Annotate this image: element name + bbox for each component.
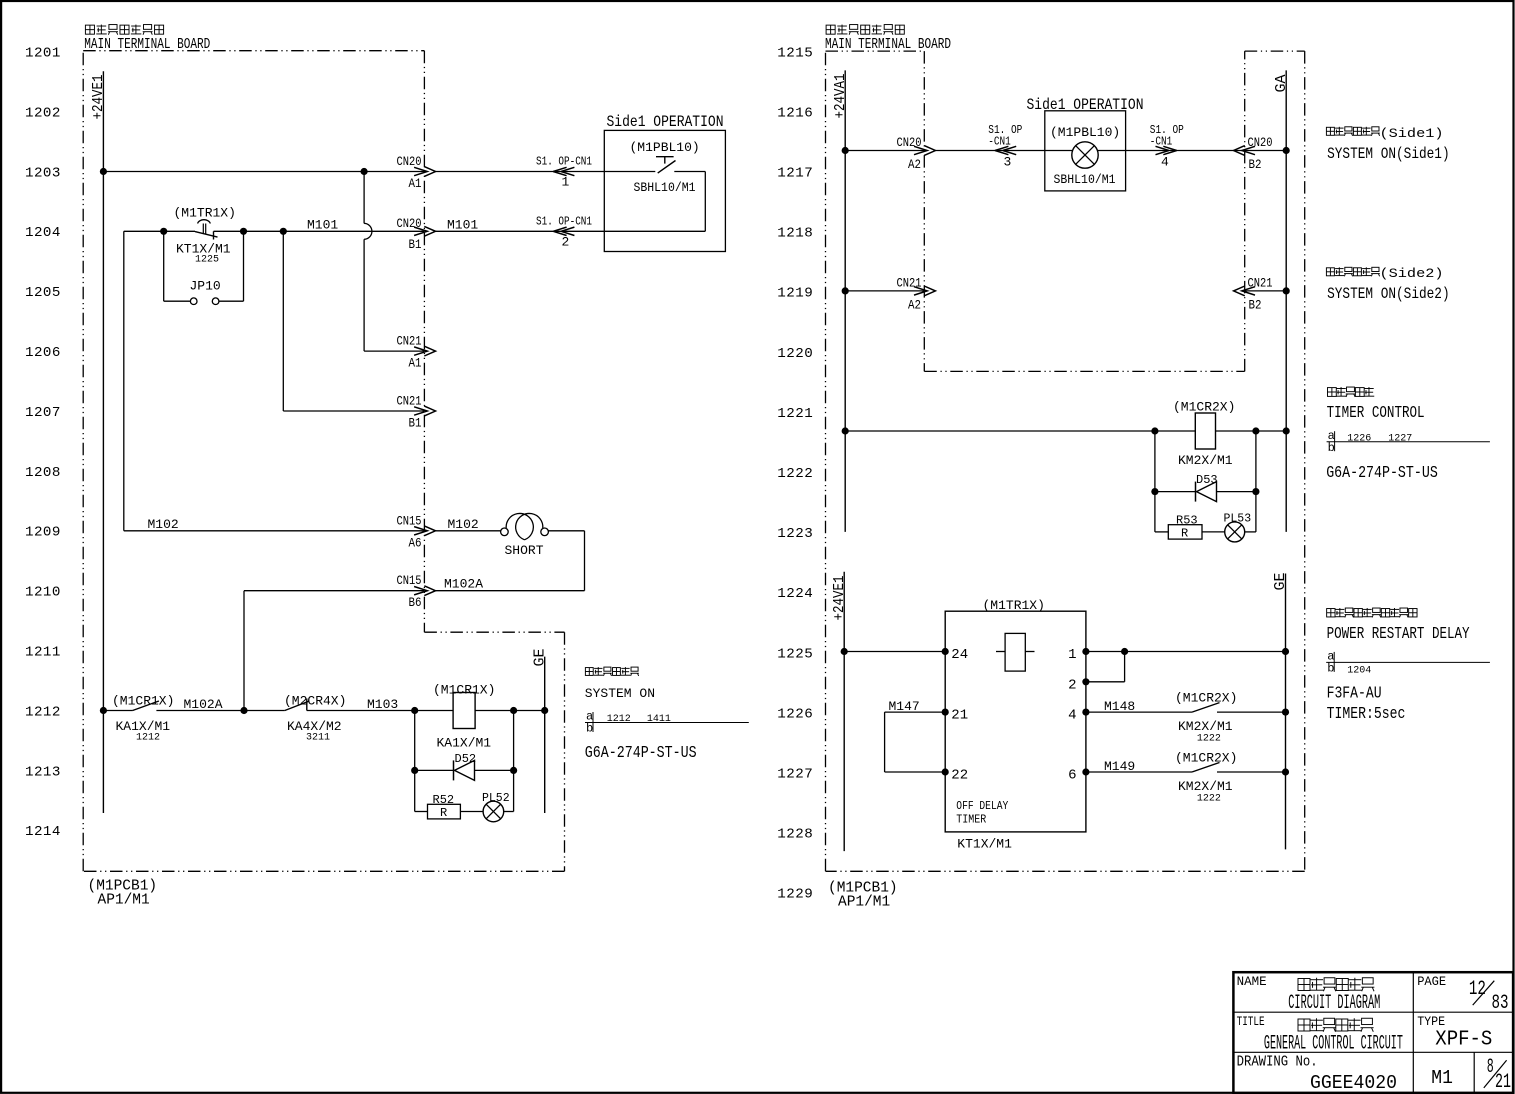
svg-text:1219: 1219 <box>777 286 813 302</box>
svg-text:B1: B1 <box>409 417 422 431</box>
svg-text:D52: D52 <box>455 752 477 766</box>
svg-text:KM2X/M1: KM2X/M1 <box>1178 779 1233 794</box>
svg-text:1222: 1222 <box>1197 733 1221 744</box>
svg-text:CIRCUIT DIAGRAM: CIRCUIT DIAGRAM <box>1288 992 1380 1015</box>
svg-text:TITLE: TITLE <box>1237 1014 1265 1029</box>
svg-text:b: b <box>586 722 593 736</box>
svg-text:1222: 1222 <box>1197 793 1221 804</box>
svg-text:1213: 1213 <box>25 764 61 780</box>
svg-text:22: 22 <box>951 768 968 784</box>
svg-text:A6: A6 <box>409 536 422 550</box>
svg-text:PL52: PL52 <box>482 792 510 805</box>
svg-text:CN15: CN15 <box>397 514 422 528</box>
svg-text:B2: B2 <box>1249 298 1262 312</box>
svg-text:R: R <box>1181 527 1188 541</box>
svg-text:SYSTEM ON(Side1): SYSTEM ON(Side1) <box>1327 145 1450 163</box>
svg-text:3: 3 <box>1004 155 1012 170</box>
svg-text:(M1TR1X): (M1TR1X) <box>174 206 236 221</box>
svg-text:1229: 1229 <box>777 887 813 903</box>
svg-text:AP1/M1: AP1/M1 <box>838 895 890 911</box>
svg-text:1227: 1227 <box>1388 433 1412 444</box>
svg-text:M103: M103 <box>367 697 398 712</box>
svg-text:A1: A1 <box>409 177 422 191</box>
svg-text:AP1/M1: AP1/M1 <box>98 893 150 909</box>
svg-text:R52: R52 <box>433 793 455 807</box>
svg-text:1212: 1212 <box>607 714 631 725</box>
svg-text:M102A: M102A <box>184 697 223 712</box>
svg-text:1225: 1225 <box>777 646 813 662</box>
svg-text:CN20: CN20 <box>397 217 422 231</box>
svg-text:(M1CR2X): (M1CR2X) <box>1175 751 1237 766</box>
svg-text:-CN1: -CN1 <box>988 135 1011 149</box>
svg-text:JP10: JP10 <box>190 279 221 294</box>
svg-text:-CN1: -CN1 <box>1150 135 1173 149</box>
svg-text:(M1CR1X): (M1CR1X) <box>112 694 174 709</box>
svg-text:(M1CR2X): (M1CR2X) <box>1175 691 1237 706</box>
svg-text:B2: B2 <box>1249 158 1262 172</box>
svg-text:1216: 1216 <box>777 105 813 121</box>
svg-text:1207: 1207 <box>25 405 61 421</box>
svg-text:DRAWING No.: DRAWING No. <box>1237 1054 1318 1070</box>
svg-text:GE: GE <box>532 648 549 666</box>
svg-text:2: 2 <box>1068 677 1076 693</box>
svg-text:CN20: CN20 <box>397 155 422 169</box>
svg-text:24: 24 <box>951 647 968 663</box>
svg-text:21: 21 <box>1495 1071 1511 1094</box>
svg-text:SYSTEM ON: SYSTEM ON <box>585 686 655 701</box>
svg-text:1221: 1221 <box>777 406 813 422</box>
svg-text:R: R <box>440 806 447 820</box>
svg-text:1224: 1224 <box>777 586 813 602</box>
svg-text:2: 2 <box>562 235 570 250</box>
svg-text:SYSTEM ON(Side2): SYSTEM ON(Side2) <box>1327 285 1450 303</box>
svg-text:1217: 1217 <box>777 166 813 182</box>
svg-text:1210: 1210 <box>25 585 61 601</box>
svg-text:1223: 1223 <box>777 526 813 542</box>
svg-text:(M1PBL10): (M1PBL10) <box>1050 125 1120 140</box>
svg-text:1201: 1201 <box>25 46 61 62</box>
svg-text:TIMER: TIMER <box>956 813 986 827</box>
svg-text:1212: 1212 <box>136 733 160 744</box>
svg-text:1212: 1212 <box>25 704 61 720</box>
svg-text:M147: M147 <box>889 699 920 714</box>
svg-text:M148: M148 <box>1104 699 1135 714</box>
svg-text:GGEE4020: GGEE4020 <box>1310 1072 1397 1094</box>
svg-text:G6A-274P-ST-US: G6A-274P-ST-US <box>585 744 697 763</box>
svg-text:b: b <box>1328 441 1335 455</box>
svg-text:A1: A1 <box>409 357 422 371</box>
svg-text:1222: 1222 <box>777 466 813 482</box>
svg-text:POWER RESTART DELAY: POWER RESTART DELAY <box>1327 625 1470 644</box>
svg-text:4: 4 <box>1068 708 1076 724</box>
svg-text:SBHL10/M1: SBHL10/M1 <box>634 180 696 195</box>
svg-text:PAGE: PAGE <box>1417 974 1446 989</box>
svg-text:(M2CR4X): (M2CR4X) <box>284 694 346 709</box>
svg-text:M101: M101 <box>307 218 338 233</box>
svg-text:1202: 1202 <box>25 105 61 121</box>
svg-text:1214: 1214 <box>25 824 61 840</box>
svg-text:CN21: CN21 <box>397 395 422 409</box>
svg-text:CN20: CN20 <box>1248 136 1273 150</box>
svg-text:S1. OP-CN1: S1. OP-CN1 <box>536 155 592 169</box>
svg-text:KM2X/M1: KM2X/M1 <box>1178 453 1233 468</box>
svg-text:+24VE1: +24VE1 <box>90 75 107 120</box>
svg-text:1228: 1228 <box>777 827 813 843</box>
svg-text:1218: 1218 <box>777 226 813 242</box>
svg-text:A2: A2 <box>908 298 921 312</box>
svg-text:1215: 1215 <box>777 45 813 61</box>
svg-text:KA1X/M1: KA1X/M1 <box>437 736 492 751</box>
svg-text:(M1CR2X): (M1CR2X) <box>1173 400 1235 415</box>
svg-text:1: 1 <box>1068 647 1076 663</box>
svg-text:b: b <box>1327 662 1334 676</box>
svg-text:(Side2): (Side2) <box>1380 267 1444 281</box>
svg-text:KM2X/M1: KM2X/M1 <box>1178 719 1233 734</box>
svg-text:1411: 1411 <box>647 714 671 725</box>
svg-text:(M1CR1X): (M1CR1X) <box>433 683 495 698</box>
svg-text:(M1PBL10): (M1PBL10) <box>630 140 700 155</box>
svg-text:TYPE: TYPE <box>1417 1014 1445 1029</box>
svg-text:M102: M102 <box>448 517 479 532</box>
svg-text:M101: M101 <box>447 218 478 233</box>
svg-text:GA: GA <box>1273 74 1290 92</box>
svg-text:M102A: M102A <box>444 577 483 592</box>
svg-text:SHORT: SHORT <box>505 543 544 558</box>
svg-text:1208: 1208 <box>25 465 61 481</box>
svg-text:4: 4 <box>1161 155 1169 170</box>
svg-text:1226: 1226 <box>777 706 813 722</box>
svg-text:1226: 1226 <box>1347 433 1371 444</box>
svg-text:1209: 1209 <box>25 525 61 541</box>
svg-text:1204: 1204 <box>1347 666 1371 677</box>
svg-text:CN21: CN21 <box>1248 276 1273 290</box>
svg-text:3211: 3211 <box>306 733 330 744</box>
svg-text:M149: M149 <box>1104 759 1135 774</box>
svg-text:1227: 1227 <box>777 767 813 783</box>
svg-text:Side1 OPERATION: Side1 OPERATION <box>1027 96 1144 114</box>
svg-text:GENERAL CONTROL CIRCUIT: GENERAL CONTROL CIRCUIT <box>1264 1032 1403 1055</box>
svg-text:1204: 1204 <box>25 225 61 241</box>
svg-text:F3FA-AU: F3FA-AU <box>1327 684 1382 703</box>
svg-text:XPF-S: XPF-S <box>1435 1029 1492 1052</box>
svg-text:8: 8 <box>1487 1056 1494 1079</box>
svg-text:21: 21 <box>951 708 968 724</box>
svg-text:GE: GE <box>1272 572 1289 590</box>
svg-text:Side1 OPERATION: Side1 OPERATION <box>607 113 724 131</box>
svg-text:CN20: CN20 <box>897 136 922 150</box>
svg-text:1: 1 <box>562 175 570 190</box>
svg-text:B1: B1 <box>409 238 422 252</box>
svg-text:NAME: NAME <box>1237 974 1267 989</box>
svg-text:CN21: CN21 <box>897 276 922 290</box>
svg-text:B6: B6 <box>409 596 422 610</box>
svg-text:SBHL10/M1: SBHL10/M1 <box>1054 172 1116 187</box>
svg-text:M1: M1 <box>1431 1067 1453 1089</box>
svg-text:+24VE1: +24VE1 <box>831 576 848 621</box>
svg-text:OFF DELAY: OFF DELAY <box>956 799 1008 813</box>
svg-text:CN15: CN15 <box>397 574 422 588</box>
svg-text:KT1X/M1: KT1X/M1 <box>957 837 1012 852</box>
svg-text:M102: M102 <box>148 517 179 532</box>
svg-text:+24VA1: +24VA1 <box>832 74 849 119</box>
svg-text:PL53: PL53 <box>1224 513 1252 526</box>
svg-text:CN21: CN21 <box>397 335 422 349</box>
svg-text:1206: 1206 <box>25 345 61 361</box>
svg-text:1203: 1203 <box>25 165 61 181</box>
svg-text:6: 6 <box>1068 768 1076 784</box>
svg-text:A2: A2 <box>908 158 921 172</box>
svg-text:(Side1): (Side1) <box>1380 127 1444 141</box>
svg-text:1211: 1211 <box>25 645 61 661</box>
svg-text:TIMER CONTROL: TIMER CONTROL <box>1327 404 1425 423</box>
svg-text:83: 83 <box>1492 992 1509 1015</box>
svg-text:1225: 1225 <box>195 255 219 266</box>
svg-text:TIMER:5sec: TIMER:5sec <box>1327 705 1406 724</box>
svg-text:1205: 1205 <box>25 285 61 301</box>
svg-text:D53: D53 <box>1196 473 1218 487</box>
svg-text:S1. OP-CN1: S1. OP-CN1 <box>536 215 592 229</box>
svg-text:12: 12 <box>1469 978 1486 1001</box>
svg-text:(M1TR1X): (M1TR1X) <box>983 598 1045 613</box>
svg-text:G6A-274P-ST-US: G6A-274P-ST-US <box>1326 464 1438 483</box>
svg-text:R53: R53 <box>1176 514 1198 528</box>
svg-text:1220: 1220 <box>777 346 813 362</box>
